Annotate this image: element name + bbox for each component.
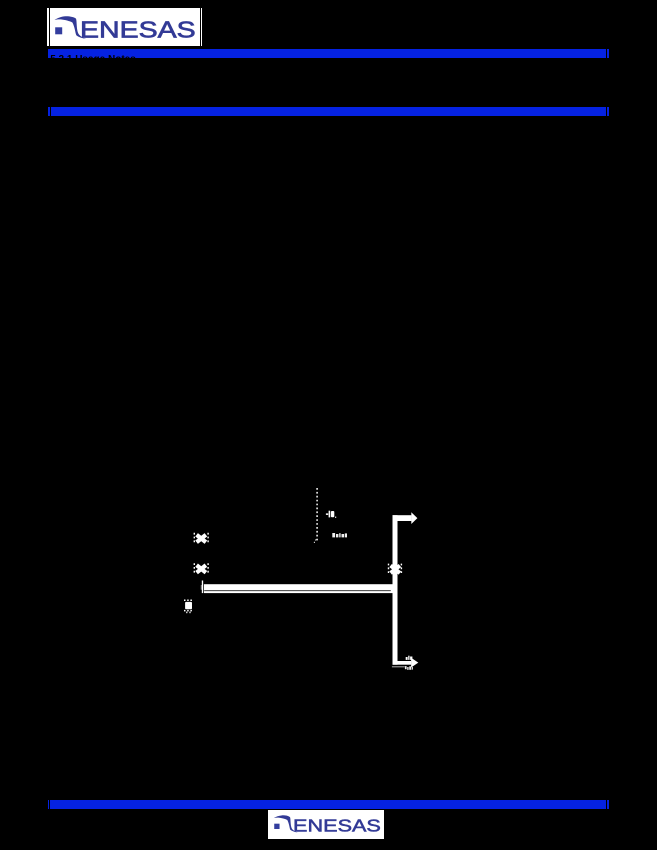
header chapter text (black, mostly hidden on black bg) <box>50 55 136 65</box>
top arrowhead <box>411 512 417 524</box>
svg-text:ENESAS: ENESAS <box>80 17 196 43</box>
bus transition mark 3 right bracket <box>400 564 402 575</box>
dotted guide hook <box>314 540 316 544</box>
bus transition mark 2 X <box>197 565 206 572</box>
header bar (top blue rule) left tick <box>48 49 49 59</box>
bus transition mark 3 X <box>391 566 400 573</box>
bottom Renesas logo artwork <box>268 809 387 838</box>
bus bar left end cap tick <box>202 581 203 594</box>
bus transition mark 1 left bracket <box>193 533 195 544</box>
bus bar separator line <box>204 590 391 591</box>
tiny label above bottom arrowhead <box>406 656 413 660</box>
label Data <box>332 533 347 537</box>
dotted vertical guide line <box>316 488 318 541</box>
top arrow shaft <box>393 515 412 521</box>
logo R swoosh <box>273 815 297 832</box>
top logo box inner left border line <box>49 8 50 46</box>
header bar (top blue rule) <box>49 49 606 59</box>
svg-text:ENESAS: ENESAS <box>293 815 381 835</box>
dotted block symbol body <box>185 602 192 609</box>
bus transition mark 2 left bracket <box>193 563 195 574</box>
second header rule left tick <box>48 107 49 116</box>
label 4k <box>326 511 336 518</box>
top Renesas logo box <box>47 8 202 46</box>
footer bar (bottom blue rule) <box>50 800 606 809</box>
bus transition mark 1 X <box>197 535 206 542</box>
bus transition mark 2 right bracket <box>207 563 209 574</box>
footer bar left tick <box>48 800 49 809</box>
bottom arrowhead <box>411 658 418 668</box>
logo square dot <box>55 28 62 35</box>
second header rule right tick <box>607 107 608 116</box>
footer bar right tick <box>607 800 608 809</box>
dotted block symbol bottom dot row <box>184 610 194 612</box>
second header rule <box>51 107 607 116</box>
bus transition mark 3 left bracket <box>388 564 390 575</box>
bus transition mark 1 right bracket <box>207 533 209 544</box>
top Renesas logo artwork <box>47 8 203 46</box>
vertical bus run <box>393 515 398 665</box>
gray underline at bottom arrow <box>392 666 405 667</box>
figure: timing diagram fragment <box>150 460 460 700</box>
dotted block symbol top dot row <box>184 599 194 601</box>
bottom Renesas logo box <box>267 809 386 840</box>
horizontal bus bar <box>204 584 393 593</box>
bus bar left nub <box>201 585 202 590</box>
header bar (top blue rule) right tick <box>607 49 608 59</box>
dotted block symbol feet <box>186 612 187 614</box>
logo R swoosh <box>54 17 86 40</box>
logo square dot <box>274 823 279 828</box>
bottom arrow shaft <box>393 661 412 665</box>
tiny label below bottom arrow <box>405 666 413 670</box>
top logo box inner right border line <box>200 8 201 46</box>
